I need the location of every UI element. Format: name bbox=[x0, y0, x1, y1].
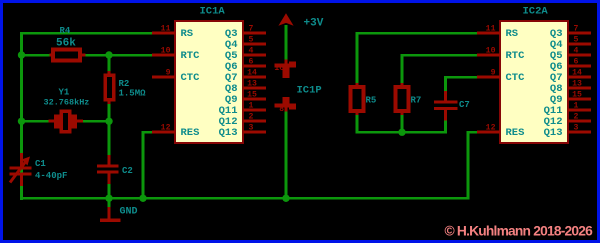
IC2A pin Q6 (6) bbox=[550, 58, 591, 74]
svg-text:11: 11 bbox=[486, 25, 496, 34]
wire: IC2 RS net horizontal y=33 bbox=[356, 32, 480, 35]
svg-text:RS: RS bbox=[506, 28, 519, 40]
svg-text:6: 6 bbox=[249, 58, 254, 67]
IC2A pin Q8 (13) bbox=[550, 80, 591, 96]
resistor R5 (vertical) bbox=[351, 83, 364, 115]
svg-text:1.5MΩ: 1.5MΩ bbox=[119, 89, 147, 99]
svg-text:R7: R7 bbox=[411, 96, 422, 106]
svg-text:3: 3 bbox=[249, 124, 254, 133]
IC1A pin Q13 (3) bbox=[219, 124, 266, 140]
svg-text:RTC: RTC bbox=[181, 50, 201, 62]
wire: power column x=286 above VDD pin bbox=[285, 25, 288, 60]
svg-text:8: 8 bbox=[279, 105, 284, 114]
svg-text:IC1A: IC1A bbox=[200, 6, 226, 18]
svg-text:4: 4 bbox=[249, 47, 254, 56]
IC2A pin Q3 (7) bbox=[550, 25, 591, 41]
wire: RC net horizontal y=131.5 bbox=[356, 131, 447, 134]
IC1A pin Q11 (1) bbox=[219, 102, 266, 118]
IC1A pin Q9 (15) bbox=[225, 91, 266, 107]
IC2A pin Q4 (5) bbox=[550, 36, 591, 52]
svg-text:10: 10 bbox=[486, 47, 496, 56]
svg-text:1: 1 bbox=[249, 102, 254, 111]
svg-text:IC2A: IC2A bbox=[523, 6, 549, 18]
wire: R5 bottom vertical x=357 bbox=[356, 114, 359, 133]
svg-text:32.768kHz: 32.768kHz bbox=[44, 98, 90, 108]
svg-text:© H.Kuhlmann 2018-2026: © H.Kuhlmann 2018-2026 bbox=[445, 224, 594, 239]
svg-text:Q13: Q13 bbox=[544, 127, 563, 139]
wire: IC1 RES vertical x=143 bbox=[142, 131, 145, 200]
junction (109,55) bbox=[105, 51, 112, 58]
wire: IC2 RTC vertical to R7 x=402 bbox=[401, 54, 404, 88]
svg-text:16: 16 bbox=[274, 64, 284, 73]
IC1A pin RS (11) bbox=[152, 25, 193, 41]
svg-text:5: 5 bbox=[249, 36, 254, 45]
svg-text:Q13: Q13 bbox=[219, 127, 238, 139]
wire: right riser x=468 RES to rail bbox=[467, 131, 470, 200]
svg-text:7: 7 bbox=[574, 25, 579, 34]
junction (402,131.5) bbox=[398, 129, 405, 136]
svg-text:10: 10 bbox=[161, 47, 171, 56]
IC1A pin Q12 (2) bbox=[219, 113, 266, 129]
svg-text:C2: C2 bbox=[122, 166, 133, 176]
IC1A pin Q7 (14) bbox=[225, 69, 266, 85]
wire: IC1 RTC net horizontal y=55 (through R4) bbox=[20, 54, 154, 57]
svg-text:11: 11 bbox=[161, 25, 171, 34]
IC1A pin Q4 (5) bbox=[225, 36, 266, 52]
wire: IC2 RS vertical to R5 x=357 bbox=[356, 32, 359, 84]
IC2A pin RTC (10) bbox=[477, 47, 525, 63]
IC1A pin Q8 (13) bbox=[225, 80, 266, 96]
svg-text:2: 2 bbox=[574, 113, 579, 122]
IC U1 gate IC1A (CD4060) box bbox=[175, 21, 243, 143]
wire: C7 bottom vertical x=445.5 bbox=[444, 121, 447, 134]
junction (286,197) bbox=[282, 195, 289, 202]
IC2A pin RS (11) bbox=[477, 25, 518, 41]
IC1A pin RTC (10) bbox=[152, 47, 200, 63]
wire: middle column x=109 C2 bottom to rail bbox=[108, 184, 111, 200]
trimmer capacitor C1 bbox=[10, 153, 32, 186]
capacitor C2 bbox=[97, 155, 119, 184]
svg-text:RES: RES bbox=[506, 127, 525, 139]
wire: IC2 CTC vertical to C7 x=445.5 bbox=[444, 76, 447, 92]
junction (143,197) bbox=[139, 195, 146, 202]
svg-text:CTC: CTC bbox=[181, 72, 201, 84]
wire: IC1 RES horizontal y=132 bbox=[142, 131, 156, 134]
wire: left column x=21.5 from RS wire down to bottom rail bbox=[20, 32, 23, 200]
IC U2 gate IC2A (CD4060) box bbox=[500, 21, 568, 143]
IC2A pin Q13 (3) bbox=[544, 124, 591, 140]
svg-text:C1: C1 bbox=[35, 159, 46, 169]
svg-text:RES: RES bbox=[181, 127, 200, 139]
svg-text:7: 7 bbox=[249, 25, 254, 34]
resistor R2 (vertical, x=109) bbox=[105, 71, 113, 104]
capacitor C7 bbox=[434, 91, 458, 121]
svg-text:RTC: RTC bbox=[506, 50, 526, 62]
crystal Y1 bbox=[49, 111, 84, 132]
svg-text:GND: GND bbox=[120, 206, 138, 217]
wire: R7 bottom vertical x=402 bbox=[401, 114, 404, 133]
svg-text:4: 4 bbox=[574, 47, 579, 56]
junction (21.5,121) bbox=[18, 118, 25, 125]
svg-text:R2: R2 bbox=[119, 79, 130, 89]
IC2A pin Q7 (14) bbox=[550, 69, 591, 85]
svg-text:1: 1 bbox=[574, 102, 579, 111]
wire: bottom rail y=197 bbox=[20, 197, 469, 200]
svg-text:13: 13 bbox=[247, 80, 257, 89]
svg-text:15: 15 bbox=[247, 91, 257, 100]
wire: middle column x=109 R8 bottom to C2 top bbox=[108, 104, 111, 156]
IC1A pin Q5 (4) bbox=[225, 47, 266, 63]
junction (109,197) bbox=[105, 195, 112, 202]
svg-text:56k: 56k bbox=[56, 38, 76, 50]
svg-text:12: 12 bbox=[161, 124, 171, 133]
svg-text:RS: RS bbox=[181, 28, 194, 40]
svg-text:+3V: +3V bbox=[304, 18, 324, 30]
ground symbol GND bbox=[100, 198, 121, 222]
wire: IC2 RTC net horizontal y=55 bbox=[401, 54, 480, 57]
svg-text:14: 14 bbox=[247, 69, 257, 78]
IC2A pin Q5 (4) bbox=[550, 47, 591, 63]
IC1A pin RES (12) bbox=[152, 124, 199, 140]
svg-text:12: 12 bbox=[486, 124, 496, 133]
svg-text:CTC: CTC bbox=[506, 72, 526, 84]
IC2A pin Q12 (2) bbox=[544, 113, 591, 129]
power symbol +3V arrow bbox=[278, 13, 293, 26]
IC2A pin RES (12) bbox=[477, 124, 524, 140]
svg-text:Y1: Y1 bbox=[59, 88, 70, 98]
svg-text:14: 14 bbox=[572, 69, 582, 78]
svg-text:C7: C7 bbox=[459, 100, 470, 110]
IC1A pin CTC (9) bbox=[152, 69, 200, 85]
svg-text:13: 13 bbox=[572, 80, 582, 89]
svg-text:R4: R4 bbox=[60, 26, 71, 36]
svg-text:6: 6 bbox=[574, 58, 579, 67]
svg-text:15: 15 bbox=[572, 91, 582, 100]
junction (21.5,55) bbox=[18, 51, 25, 58]
svg-text:3: 3 bbox=[574, 124, 579, 133]
IC2A pin Q9 (15) bbox=[550, 91, 591, 107]
wire: IC2 CTC net horizontal y=77 bbox=[444, 76, 479, 79]
power gate IC1P pin VSS (8) bbox=[275, 97, 296, 114]
wire: middle column x=109 R8 top segment bbox=[108, 55, 111, 72]
svg-text:9: 9 bbox=[491, 69, 496, 78]
junction (109,121) bbox=[105, 118, 112, 125]
IC2A pin Q11 (1) bbox=[544, 102, 591, 118]
resistor R4 (horizontal) bbox=[50, 50, 86, 61]
wire: IC2 RES horizontal y=132 bbox=[467, 131, 480, 134]
wire: power column x=286 below VSS pin to rail bbox=[285, 111, 288, 200]
svg-text:5: 5 bbox=[574, 36, 579, 45]
svg-text:2: 2 bbox=[249, 113, 254, 122]
IC2A pin CTC (9) bbox=[477, 69, 525, 85]
svg-text:4-40pF: 4-40pF bbox=[35, 171, 67, 181]
svg-text:IC1P: IC1P bbox=[297, 84, 322, 96]
IC1A pin Q3 (7) bbox=[225, 25, 266, 41]
svg-text:R5: R5 bbox=[366, 96, 377, 106]
resistor R7 (vertical) bbox=[396, 83, 409, 115]
wire: IC1 RS net horizontal y=33 bbox=[20, 32, 154, 35]
power gate IC1P pin VDD (16) bbox=[274, 60, 296, 79]
svg-text:9: 9 bbox=[166, 69, 171, 78]
wire: crystal net horizontal y=121 bbox=[20, 120, 50, 123]
IC1A pin Q6 (6) bbox=[225, 58, 266, 74]
